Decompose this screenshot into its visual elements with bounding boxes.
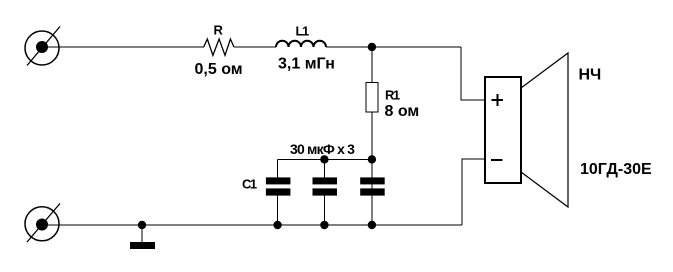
svg-text:НЧ: НЧ <box>579 67 602 84</box>
svg-text:R: R <box>214 23 224 38</box>
input terminal bottom-left <box>25 204 60 243</box>
junction node bus-cap3 <box>368 155 376 163</box>
wire between R and L1 <box>234 46 276 48</box>
wire corner to speaker plus <box>461 47 485 100</box>
svg-text:R1: R1 <box>385 88 400 103</box>
capacitor C1 unit 1 <box>266 159 291 225</box>
svg-text:30 мкФ x 3: 30 мкФ x 3 <box>290 141 355 157</box>
wire top rail left <box>48 46 204 48</box>
capacitor C1 unit 3 <box>360 177 385 195</box>
wire corner to speaker minus <box>462 159 485 225</box>
input terminal top-left <box>25 27 60 66</box>
svg-text:0,5 ом: 0,5 ом <box>195 61 243 78</box>
junction node rail-cap2 <box>320 221 328 229</box>
svg-text:C1: C1 <box>242 176 257 191</box>
capacitor C1 unit 2 <box>313 159 338 225</box>
svg-text:L1: L1 <box>296 23 309 38</box>
wire bottom rail <box>48 224 462 226</box>
wire top rail right <box>326 46 461 48</box>
junction node rail-cap1 <box>273 221 281 229</box>
junction node rail-cap3 <box>368 221 376 229</box>
svg-text:10ГД-30Е: 10ГД-30Е <box>580 161 652 178</box>
wire R1 bottom to bottom rail <box>371 112 373 225</box>
resistor R <box>204 39 234 55</box>
speaker minus pin <box>491 159 502 161</box>
svg-text:8 ом: 8 ом <box>385 103 420 120</box>
junction node bus-cap2 <box>320 155 328 163</box>
wire R1 branch top <box>371 47 373 83</box>
junction node at R1 top <box>368 43 376 51</box>
wire capacitor top bus <box>278 158 372 160</box>
svg-text:3,1 мГн: 3,1 мГн <box>278 56 335 73</box>
speaker cone <box>521 53 568 207</box>
junction node ground <box>138 221 146 229</box>
ground <box>130 225 155 249</box>
resistor R1 <box>366 83 378 113</box>
speaker body BA1 <box>485 77 521 183</box>
inductor L1 <box>276 41 326 47</box>
speaker plus pin <box>492 94 504 106</box>
